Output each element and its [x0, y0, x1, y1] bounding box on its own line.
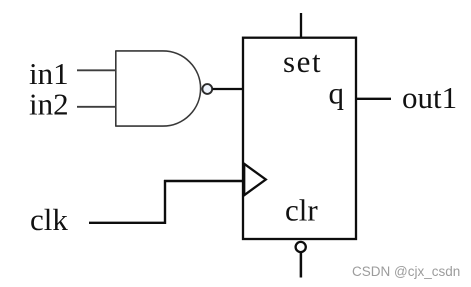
svg-text:set: set [283, 44, 322, 79]
wire clk horizontal from label [89, 222, 166, 224]
wire q output to out1 [356, 98, 391, 100]
svg-text:CSDN @cjx_csdn: CSDN @cjx_csdn [352, 264, 460, 279]
clock edge triangle [244, 164, 266, 195]
wire in2 to nand [77, 106, 116, 108]
wire in1 to nand [77, 69, 116, 71]
nand gate U1 body [116, 51, 201, 126]
wire set pin [300, 13, 302, 38]
nand output bubble [202, 84, 212, 94]
svg-text:in2: in2 [29, 87, 69, 122]
wire clk vertical riser [164, 180, 166, 224]
svg-text:clk: clk [30, 202, 68, 237]
clr inversion bubble [296, 242, 306, 252]
wire clk into triangle [164, 180, 243, 182]
wire nand output to flip-flop [213, 88, 244, 90]
wire clr pin [300, 253, 303, 278]
svg-text:q: q [329, 76, 345, 111]
svg-text:out1: out1 [402, 80, 457, 115]
svg-text:clr: clr [285, 193, 318, 228]
flip-flop U2 box [243, 38, 356, 239]
